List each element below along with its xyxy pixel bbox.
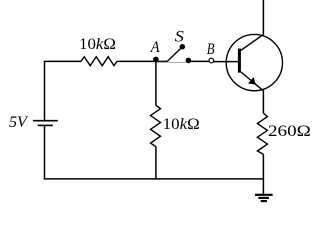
resistor R3 260Ω (vertical) bbox=[257, 113, 267, 154]
svg-text:S: S bbox=[175, 28, 184, 45]
switch S throw line (open path shown faint) bbox=[156, 61, 188, 63]
svg-text:5V: 5V bbox=[9, 114, 29, 131]
wire emitter down bbox=[262, 90, 264, 113]
wire node B to transistor base bbox=[214, 61, 239, 63]
resistor R2 10kΩ (vertical) bbox=[151, 105, 161, 146]
wire collector up bbox=[262, 0, 264, 35]
svg-text:A: A bbox=[150, 39, 160, 56]
wire left vertical (battery top) bbox=[44, 61, 46, 121]
switch contact dot bbox=[186, 58, 192, 64]
wire middle branch vertical bbox=[155, 61, 157, 105]
wire bottom horizontal bbox=[44, 178, 264, 180]
wire resistor to ground node bbox=[262, 154, 264, 194]
switch S lever bbox=[167, 47, 182, 61]
battery V1 bbox=[33, 121, 58, 126]
svg-text:10kΩ: 10kΩ bbox=[163, 116, 200, 133]
wire top to node A bbox=[117, 60, 168, 62]
svg-text:260Ω: 260Ω bbox=[268, 123, 311, 140]
wire middle branch to bottom bbox=[155, 147, 157, 180]
svg-text:10kΩ: 10kΩ bbox=[79, 36, 116, 53]
switch S pole dot bbox=[180, 44, 186, 50]
resistor R1 10kΩ (horizontal) bbox=[81, 57, 117, 66]
wire top left bbox=[44, 60, 81, 62]
wire left vertical (battery bottom) bbox=[44, 125, 46, 179]
ground bbox=[255, 195, 273, 201]
node B (open terminal) bbox=[209, 58, 214, 63]
node A bbox=[153, 57, 159, 63]
svg-text:B: B bbox=[207, 41, 215, 58]
transistor Q1 bbox=[226, 34, 282, 90]
wire contact to node B bbox=[189, 60, 209, 62]
